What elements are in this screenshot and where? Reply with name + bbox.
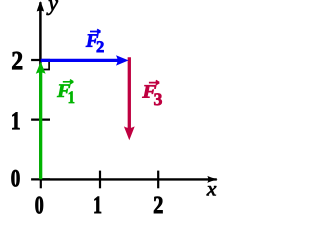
label 2 (x axis) (154, 197, 163, 213)
right-angle marker at (0,2) (41, 62, 49, 70)
label y (axis name) (46, 0, 57, 15)
label x (axis name) (207, 186, 217, 195)
label F1 (57, 80, 74, 103)
tick y=1 (31, 118, 50, 120)
tick x=1 (99, 171, 101, 189)
y axis (37, 1, 44, 179)
label 0 (y axis) (11, 170, 19, 186)
label F2 (86, 29, 104, 52)
vector F3 (crimson) (124, 57, 135, 140)
tick y=0 (31, 178, 50, 180)
tick x=2 (157, 171, 159, 189)
label 1 (y axis) (12, 112, 19, 129)
label 0 (x axis) (36, 197, 44, 214)
vector F1 (green) (36, 62, 46, 180)
label 1 (x axis) (94, 197, 101, 213)
tick y=2 (31, 59, 50, 61)
label 2 (y axis) (12, 52, 22, 70)
vector F2 (blue) (41, 55, 129, 65)
tick x=0 (40, 171, 42, 189)
x axis (41, 176, 218, 183)
label F3 (142, 81, 162, 106)
